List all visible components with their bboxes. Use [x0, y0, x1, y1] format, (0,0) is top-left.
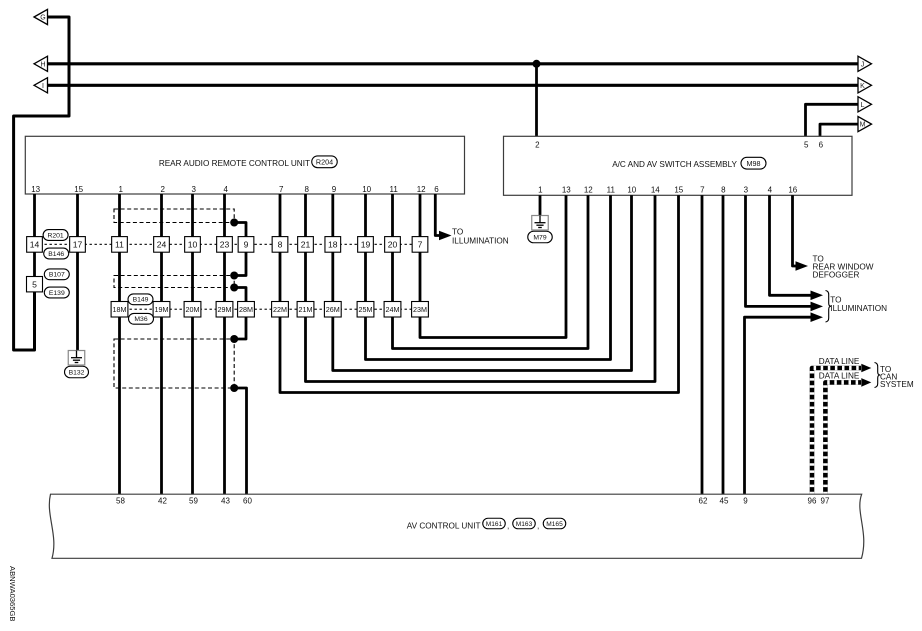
wire joint 17 to ground B132 — [76, 252, 79, 350]
svg-text:9: 9 — [244, 239, 249, 249]
connector joint 22M (row2) — [272, 302, 289, 318]
wire R204 pin to joint 21 — [304, 194, 307, 237]
connector joint 9 (row1) — [238, 237, 254, 253]
wire joint 10 to 20M — [191, 252, 194, 301]
wire joint 19 to 25M — [364, 252, 367, 301]
svg-text:42: 42 — [158, 496, 167, 505]
connector joint 19 (row1) — [358, 237, 374, 253]
svg-text:M: M — [860, 122, 866, 129]
wire R204 pin to joint 10 — [191, 194, 194, 237]
wire 26M to M98 pin 10 — [333, 195, 632, 370]
svg-text:DATA LINE: DATA LINE — [819, 372, 860, 381]
connector joint 24M (row2) — [384, 302, 401, 318]
svg-text:24M: 24M — [386, 305, 400, 314]
junction shield S2 top — [230, 272, 238, 280]
arrow illumination 3 — [811, 312, 824, 322]
svg-text:11: 11 — [607, 185, 616, 194]
connector joint 21 (row1) — [298, 237, 314, 253]
svg-text:B107: B107 — [49, 272, 65, 279]
svg-text:13: 13 — [562, 185, 571, 194]
designator M79 — [528, 231, 553, 243]
svg-text:1: 1 — [538, 185, 543, 194]
connector joint 21M (row2) — [297, 302, 314, 318]
svg-text:62: 62 — [699, 496, 708, 505]
shield S1 around wires 1-4 — [114, 209, 234, 223]
connector joint 8 (row1) — [272, 237, 288, 253]
connector joint 25M (row2) — [357, 302, 374, 318]
page connector arrow H — [34, 56, 48, 71]
wire R204 pin to joint 18 — [331, 194, 334, 237]
wire AV pin 9 to illumination — [745, 317, 811, 494]
wire 25M to M98 pin 11 — [366, 195, 611, 359]
svg-text:28M: 28M — [239, 305, 253, 314]
connector joint 18 (row1) — [325, 237, 341, 253]
connector joint 28M (row2) — [238, 302, 255, 318]
svg-text:13: 13 — [31, 185, 40, 194]
svg-text:AV CONTROL UNIT: AV CONTROL UNIT — [407, 521, 481, 530]
svg-text:3: 3 — [744, 185, 749, 194]
svg-text:2: 2 — [160, 185, 165, 194]
svg-text:7: 7 — [418, 239, 423, 249]
svg-text:7: 7 — [700, 185, 705, 194]
svg-text:M163: M163 — [516, 521, 533, 528]
svg-text:R204: R204 — [316, 157, 333, 166]
svg-text:23: 23 — [220, 239, 230, 249]
svg-text:I: I — [42, 83, 44, 90]
svg-text:TO: TO — [452, 228, 463, 237]
svg-text:,: , — [507, 521, 509, 530]
wire joint 11 to 18M — [118, 252, 121, 301]
svg-text:M161: M161 — [486, 521, 503, 528]
svg-text:1: 1 — [118, 185, 123, 194]
svg-text:25M: 25M — [359, 305, 373, 314]
wire R204 pin to joint 20 — [391, 194, 394, 237]
wire M98 pin 3 to illumination — [746, 195, 811, 306]
wire 24M to M98 pin 12 — [393, 195, 589, 348]
connector joint 10 (row1) — [185, 237, 201, 253]
junction bus/pin2 — [533, 60, 541, 68]
shield S2 around wires — [114, 276, 234, 288]
svg-text:18M: 18M — [113, 305, 127, 314]
designator R201 — [43, 230, 68, 241]
wire bus I-K — [48, 84, 859, 87]
wire M98 pin 2 to bus — [535, 64, 538, 137]
arrow illumination 1 — [811, 291, 824, 301]
svg-text:11: 11 — [115, 239, 124, 249]
wire G to connector column 13 — [14, 17, 69, 350]
svg-text:G: G — [40, 15, 45, 22]
svg-text:ABNWA0365GB: ABNWA0365GB — [8, 566, 17, 621]
svg-text:H: H — [40, 61, 45, 68]
svg-text:SYSTEM: SYSTEM — [880, 380, 914, 389]
data line AV pin 96 to CAN — [812, 368, 861, 494]
svg-text:B132: B132 — [69, 369, 85, 376]
svg-text:11: 11 — [390, 185, 399, 194]
svg-text:ILLUMINATION: ILLUMINATION — [830, 304, 887, 313]
svg-text:43: 43 — [221, 496, 230, 505]
svg-text:M98: M98 — [747, 159, 761, 168]
connector joint 26M (row2) — [324, 302, 341, 318]
svg-text:DEFOGGER: DEFOGGER — [813, 271, 860, 280]
box 5 (joint on column 13) — [27, 277, 43, 292]
svg-text:97: 97 — [821, 496, 830, 505]
wire joint 9 to shield S2 — [234, 252, 246, 275]
designator M163 — [513, 518, 536, 529]
junction shield S1 drain — [230, 219, 238, 227]
wire M98 pin 4 to illumination — [770, 195, 811, 295]
svg-text:26M: 26M — [326, 305, 340, 314]
connector joint 14 (row1) — [27, 237, 43, 253]
wire R204 pin to joint 24 — [160, 194, 163, 237]
svg-text:5: 5 — [32, 279, 37, 289]
svg-text:2: 2 — [535, 141, 540, 150]
svg-text:10: 10 — [188, 239, 198, 249]
designator B149 — [128, 294, 153, 305]
wire 23M to M98 pin 13 — [420, 195, 566, 337]
svg-text:8: 8 — [278, 239, 283, 249]
wire M98 pin 8 to AV pin 45 — [722, 195, 725, 494]
svg-text:58: 58 — [116, 496, 125, 505]
wire R204 pin to joint 19 — [364, 194, 367, 237]
connector joint 18M (row2) — [111, 302, 128, 318]
wire 19M to AV pin 42 — [160, 317, 163, 494]
connector joint 20M (row2) — [184, 302, 201, 318]
svg-text:21M: 21M — [299, 305, 313, 314]
unit REAR AUDIO REMOTE CONTROL UNIT R204 — [25, 136, 464, 194]
designator E139 — [44, 287, 69, 298]
page connector arrow M — [858, 117, 872, 132]
page connector arrow G — [34, 9, 48, 24]
svg-text:R201: R201 — [47, 232, 63, 239]
wire joint 7 to 23M — [419, 252, 422, 301]
svg-text:J: J — [861, 61, 865, 68]
wire 21M to M98 pin 14 — [306, 195, 656, 381]
svg-text:,: , — [537, 521, 539, 530]
svg-text:B149: B149 — [133, 297, 149, 304]
wire R204 pin to joint 8 — [279, 194, 282, 237]
svg-text:14: 14 — [651, 185, 660, 194]
connector joint 11 (row1) — [112, 237, 128, 253]
junction shield S2 bottom — [230, 284, 238, 292]
svg-text:10: 10 — [362, 185, 371, 194]
svg-text:6: 6 — [434, 185, 439, 194]
svg-text:DATA LINE: DATA LINE — [819, 357, 860, 366]
wire L to M98 pin 5 — [806, 104, 859, 136]
svg-text:L: L — [861, 102, 865, 109]
junction shield S3 bottom — [230, 384, 238, 392]
wire R204 pin 6 to illumination — [435, 194, 439, 236]
connector joint 23 (row1) — [217, 237, 233, 253]
page connector arrow J — [858, 56, 872, 71]
svg-text:23M: 23M — [413, 305, 427, 314]
svg-text:96: 96 — [808, 496, 817, 505]
page connector arrow I — [34, 78, 48, 93]
designator M161 — [483, 518, 506, 529]
svg-text:15: 15 — [74, 185, 83, 194]
svg-text:18: 18 — [328, 239, 338, 249]
connector joint 7 (row1) — [412, 237, 428, 253]
svg-text:5: 5 — [804, 141, 809, 150]
svg-text:29M: 29M — [218, 305, 232, 314]
data line AV pin 97 to CAN — [825, 382, 861, 494]
ground M79 — [532, 216, 549, 231]
arrow to rear window defogger — [796, 261, 809, 271]
svg-text:4: 4 — [223, 185, 228, 194]
connector joint 24 (row1) — [154, 237, 170, 253]
svg-text:16: 16 — [788, 185, 797, 194]
svg-text:15: 15 — [674, 185, 683, 194]
designator B107 — [44, 269, 69, 280]
ground B132 — [68, 351, 85, 366]
svg-text:ILLUMINATION: ILLUMINATION — [452, 236, 509, 245]
wire bus H-J — [48, 62, 859, 65]
designator M98 — [741, 157, 766, 169]
wire shield S3 to AV pin 60 — [234, 388, 246, 494]
wire joint 23 to 29M — [223, 252, 226, 301]
designator R204 — [312, 156, 338, 168]
wire R204 pin to joint 11 — [118, 194, 121, 237]
wire 18M to AV pin 58 — [118, 317, 121, 494]
designator M165 — [543, 518, 566, 529]
arrow illumination 2 — [811, 302, 824, 312]
svg-text:B146: B146 — [48, 251, 64, 258]
svg-text:59: 59 — [189, 496, 198, 505]
svg-text:M36: M36 — [134, 316, 147, 323]
unit A/C AND AV SWITCH ASSEMBLY M98 — [504, 136, 853, 195]
unit AV CONTROL UNIT — [49, 494, 863, 558]
wire joint 18 to 26M — [331, 252, 334, 301]
svg-text:9: 9 — [332, 185, 337, 194]
svg-text:12: 12 — [584, 185, 593, 194]
svg-text:REAR AUDIO REMOTE CONTROL UNIT: REAR AUDIO REMOTE CONTROL UNIT — [159, 159, 310, 168]
wire M98 pin 16 to defogger — [793, 195, 796, 266]
svg-text:19: 19 — [361, 239, 371, 249]
svg-text:60: 60 — [243, 496, 252, 505]
svg-text:17: 17 — [73, 239, 83, 249]
svg-text:12: 12 — [417, 185, 426, 194]
wire R204 pin to joint 7 — [419, 194, 422, 237]
brace illumination — [826, 291, 832, 323]
wire joint 24 to 19M — [160, 252, 163, 301]
connector joint 17 (row1) — [70, 237, 86, 253]
svg-text:3: 3 — [191, 185, 196, 194]
svg-text:8: 8 — [721, 185, 726, 194]
svg-text:19M: 19M — [155, 305, 169, 314]
svg-text:24: 24 — [157, 239, 167, 249]
brace CAN — [875, 363, 881, 388]
wire joint 20 to 24M — [391, 252, 394, 301]
svg-text:M79: M79 — [533, 234, 546, 241]
svg-text:M165: M165 — [546, 521, 563, 528]
svg-text:4: 4 — [768, 185, 773, 194]
svg-text:45: 45 — [720, 496, 729, 505]
wire 22M to M98 pin 15 — [280, 195, 679, 392]
connector joint 23M (row2) — [412, 302, 429, 318]
wire 20M to AV pin 59 — [191, 317, 194, 494]
svg-text:22M: 22M — [273, 305, 287, 314]
page connector arrow K — [858, 78, 872, 93]
wire joint 8 to 22M — [279, 252, 282, 301]
designator B146 — [44, 248, 69, 259]
wire R204 pin to joint 23 — [223, 194, 226, 237]
svg-text:21: 21 — [301, 239, 311, 249]
wire R204 pin to joint 14 — [33, 194, 36, 237]
wire M to M98 pin 6 — [820, 124, 858, 136]
svg-text:8: 8 — [304, 185, 309, 194]
dotted joint line row 1 — [35, 243, 421, 245]
page connector arrow L — [858, 97, 872, 112]
designator M36 — [129, 313, 154, 324]
connector joint 29M (row2) — [216, 302, 233, 318]
svg-text:9: 9 — [743, 496, 748, 505]
wire joint 21 to 21M — [304, 252, 307, 301]
svg-text:7: 7 — [279, 185, 284, 194]
designator B132 — [65, 366, 89, 378]
shield S3 around wires — [114, 339, 234, 388]
svg-text:20: 20 — [388, 239, 398, 249]
svg-text:K: K — [860, 83, 865, 90]
svg-text:14: 14 — [30, 239, 40, 249]
wire shield S1 to joint 9 — [234, 223, 246, 237]
svg-text:A/C AND AV SWITCH ASSEMBLY: A/C AND AV SWITCH ASSEMBLY — [612, 160, 737, 169]
svg-text:E139: E139 — [49, 290, 65, 297]
svg-text:10: 10 — [627, 185, 636, 194]
wire shield S2 to joint 28M — [234, 288, 246, 302]
svg-text:20M: 20M — [186, 305, 200, 314]
wire joint 14 to joint 5 — [33, 252, 36, 276]
wire R204 pin to joint 17 — [76, 194, 79, 237]
connector joint 19M (row2) — [153, 302, 170, 318]
svg-text:6: 6 — [819, 141, 824, 150]
wire 29M to AV pin 43 — [223, 317, 226, 494]
arrow to illumination (R204) — [439, 231, 452, 241]
junction shield S3 top — [230, 335, 238, 343]
dotted joint line row 2 — [120, 308, 421, 310]
connector joint 20 (row1) — [385, 237, 401, 253]
wire joint 28M to shield S3 — [234, 317, 246, 339]
wire M98 pin 7 to AV pin 62 — [701, 195, 704, 494]
wire M98 pin 1 to ground — [539, 195, 542, 215]
